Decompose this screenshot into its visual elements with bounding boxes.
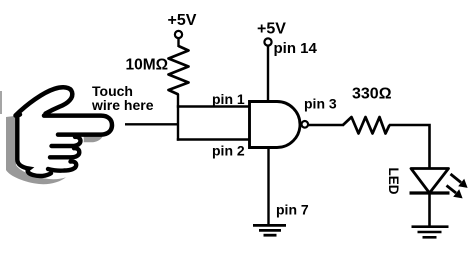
svg-text:pin 1: pin 1 <box>212 91 245 107</box>
ground symbol 1 <box>253 225 286 235</box>
+5V terminal 1 circle <box>175 31 182 38</box>
LED emission arrow 2 <box>447 186 463 199</box>
+5V terminal 2 circle <box>264 38 271 45</box>
base white silhouette <box>16 86 114 179</box>
svg-text:LED: LED <box>386 168 401 195</box>
svg-text:pin 2: pin 2 <box>212 143 245 159</box>
ring finger stroke <box>50 148 79 157</box>
NAND gate U1 <box>250 102 301 148</box>
svg-text:pin 14: pin 14 <box>274 40 318 57</box>
touch probe hand shadow <box>6 111 104 184</box>
svg-text:wire here: wire here <box>91 97 154 113</box>
LED D1 <box>410 169 450 194</box>
resistor R1 10M zigzag <box>169 46 189 95</box>
touch probe hand <box>16 86 114 179</box>
wire LED to ground <box>428 193 431 227</box>
pinky finger stroke <box>48 161 76 170</box>
svg-text:pin 3: pin 3 <box>304 96 337 112</box>
palm outline <box>17 115 51 176</box>
wire from finger to node <box>125 123 178 125</box>
thumb <box>16 87 73 115</box>
resistor R2 330 zigzag <box>343 117 390 134</box>
svg-text:330Ω: 330Ω <box>352 85 392 102</box>
svg-text:+5V: +5V <box>257 21 286 38</box>
ground symbol 2 <box>412 227 449 238</box>
svg-text:10MΩ: 10MΩ <box>126 57 169 74</box>
wire terminal1 to resistor <box>177 38 179 47</box>
LED emission arrow 1 <box>451 174 468 188</box>
wire pin1 <box>177 105 250 107</box>
wire resistor to LED <box>389 125 430 169</box>
index finger stroke <box>44 116 112 135</box>
svg-text:+5V: +5V <box>168 12 197 29</box>
wire terminal2 to gate pin14 <box>267 46 269 102</box>
svg-text:pin 7: pin 7 <box>276 202 309 218</box>
middle finger stroke <box>52 137 81 146</box>
wire pin3 to resistor <box>308 124 344 126</box>
wire pin2 <box>177 138 250 140</box>
NAND output bubble <box>302 121 309 128</box>
scan artifact gray sliver <box>0 91 2 114</box>
wire resistor to input node vertical <box>177 94 179 141</box>
wire gate to ground pin7 <box>267 147 269 225</box>
